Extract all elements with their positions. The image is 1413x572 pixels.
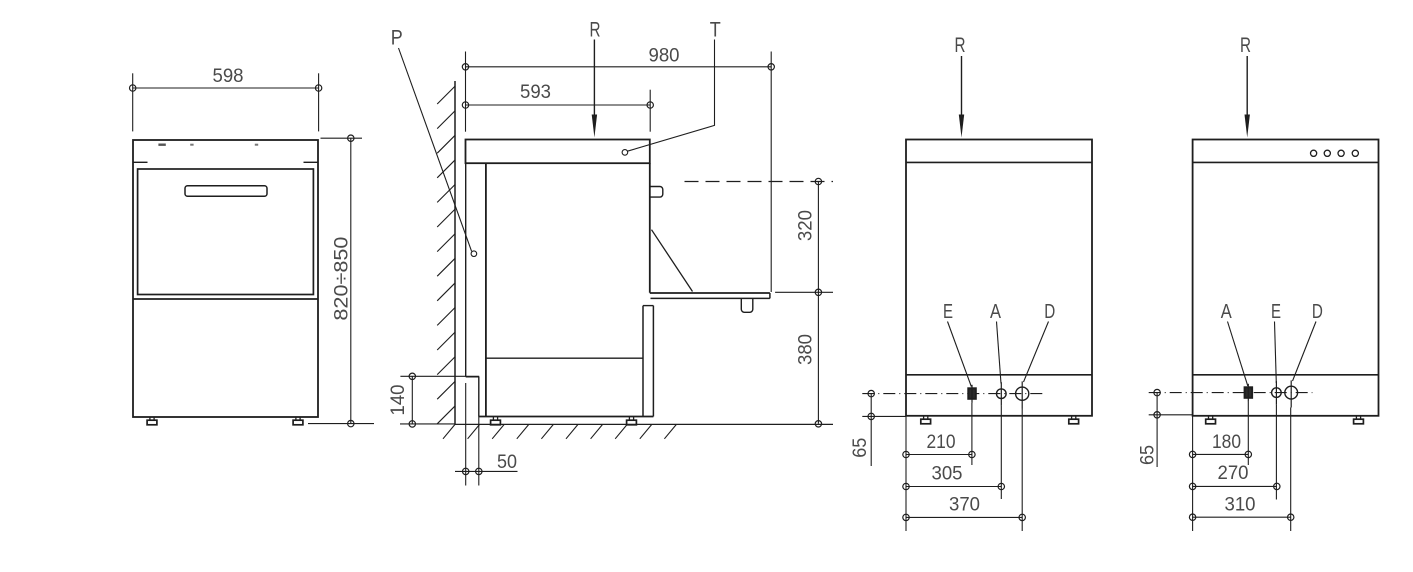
- dimension 65 A: text: [850, 438, 871, 458]
- connector D extension: [1021, 409, 1023, 532]
- rear view B: left foot: [1206, 416, 1216, 424]
- rear view A: right foot: [1069, 416, 1079, 424]
- dimension 305: text: [932, 464, 963, 485]
- connector E rear B: circle: [1272, 381, 1282, 405]
- svg-text:370: 370: [949, 495, 980, 516]
- side view: machine bottom line: [479, 416, 654, 418]
- dimension 980: text: [649, 46, 680, 67]
- side view: wall hatching: [437, 86, 455, 424]
- svg-text:820÷850: 820÷850: [332, 237, 353, 321]
- front view: machine outline: [133, 140, 318, 417]
- dimension 380: text: [796, 334, 817, 365]
- arrow R side view: [592, 40, 597, 138]
- side view: open door underside: [651, 293, 770, 298]
- svg-text:270: 270: [1218, 463, 1249, 484]
- dimension 370: text: [949, 495, 980, 516]
- dimension 180: text: [1212, 432, 1241, 453]
- connector D extension rear B: [1290, 408, 1292, 532]
- svg-text:598: 598: [213, 66, 244, 87]
- side view: ground hatching: [443, 425, 676, 439]
- dimension 65 B: text: [1138, 445, 1159, 465]
- dimension 980: end circles: [462, 64, 774, 70]
- dimension 270: line and circles: [1189, 483, 1280, 489]
- side view: door latch: [741, 299, 753, 313]
- side view: dashed clearance line: [685, 181, 834, 183]
- front view: left foot: [147, 417, 157, 425]
- dimension 820-850: extension lines: [308, 138, 374, 423]
- dimension 50: text: [497, 452, 517, 473]
- dimension 140: end circles: [409, 373, 415, 427]
- rear view B: right foot: [1354, 416, 1364, 424]
- label E: [943, 301, 953, 323]
- dimension 320: end circles: [815, 178, 821, 295]
- dimension 210: text: [927, 432, 956, 453]
- side view: rear channel bottom tick: [466, 376, 480, 378]
- front view: door bottom edge line: [133, 298, 318, 300]
- label R rear view A: [955, 34, 966, 57]
- rear view A: base band line: [906, 374, 1092, 376]
- dimension 310: line and circles: [1189, 514, 1294, 520]
- arrow R rear view B: [1245, 56, 1250, 138]
- side view: worktop slab: [466, 140, 650, 164]
- svg-text:65: 65: [1138, 445, 1159, 465]
- svg-text:310: 310: [1225, 495, 1256, 516]
- dimension 270: text: [1218, 463, 1249, 484]
- connector A: circle: [997, 382, 1007, 406]
- svg-text:R: R: [1240, 34, 1251, 57]
- front view: control panel marks: [158, 143, 258, 145]
- svg-text:A: A: [990, 301, 1002, 323]
- connector A rear B: square: [1245, 384, 1253, 402]
- dimension 50: end circles: [463, 468, 482, 474]
- side view: wall line: [454, 81, 456, 425]
- label R side view: [590, 19, 601, 42]
- side view: right foot: [627, 417, 637, 425]
- svg-text:50: 50: [497, 452, 517, 473]
- side view: door swing diagonal: [652, 230, 693, 292]
- rear view B: top band line: [1193, 161, 1379, 163]
- rear view B: connector centerline: [1149, 392, 1313, 394]
- dimension 980: left extension: [465, 52, 467, 132]
- connector A extension: [1000, 406, 1002, 499]
- label T: [710, 19, 721, 42]
- svg-text:P: P: [391, 27, 403, 50]
- label A: [990, 301, 1002, 323]
- dimension 380: extension tick: [775, 291, 833, 293]
- side view: rear channel outer line: [465, 163, 467, 377]
- side view: tub bottom line: [486, 357, 643, 359]
- dimension 980: right extension: [770, 52, 772, 293]
- side view: left foot: [491, 417, 501, 425]
- dimension 140: text: [388, 385, 409, 416]
- label E leader: [948, 322, 972, 387]
- rear view A: left extension line: [905, 416, 907, 531]
- label E rear B: [1271, 301, 1281, 323]
- rear view A: machine outline: [906, 140, 1092, 416]
- dimension 380: dimension line: [817, 292, 819, 424]
- dimension 820-850: text: [332, 237, 353, 321]
- dimension 310: text: [1225, 495, 1256, 516]
- dimension 370: line and circles: [903, 514, 1026, 520]
- rear view A: left foot: [921, 416, 931, 424]
- dimension 598: dimension line: [133, 87, 319, 89]
- svg-text:E: E: [1271, 301, 1281, 323]
- svg-text:R: R: [955, 34, 966, 57]
- dimension 593: right extension: [649, 90, 651, 132]
- label R rear view B: [1240, 34, 1251, 57]
- label D rear B: [1312, 301, 1323, 323]
- dimension 140: dimension line: [411, 376, 413, 424]
- svg-text:R: R: [590, 19, 601, 42]
- svg-text:180: 180: [1212, 432, 1241, 453]
- svg-text:A: A: [1221, 301, 1233, 323]
- label T leader line: [622, 40, 714, 156]
- rear view B: panel buttons: [1311, 150, 1359, 156]
- side view: rear lower line: [478, 377, 480, 417]
- label A leader rear B: [1228, 322, 1248, 387]
- dimension 820-850: dimension line: [350, 138, 352, 423]
- connector E extension: [971, 403, 973, 465]
- svg-text:D: D: [1044, 301, 1055, 323]
- svg-text:D: D: [1312, 301, 1323, 323]
- front view: door panel: [138, 169, 314, 295]
- svg-text:593: 593: [520, 82, 551, 103]
- dimension 598: text: [213, 66, 244, 87]
- side view: lower front panel: [643, 306, 653, 417]
- svg-text:305: 305: [932, 464, 963, 485]
- dimension 50: extension lines: [466, 383, 479, 486]
- svg-text:E: E: [943, 301, 953, 323]
- dimension 65 A: lines: [862, 394, 906, 466]
- svg-text:320: 320: [796, 210, 817, 241]
- connector A extension rear B: [1247, 402, 1249, 465]
- side view: back panel line: [485, 163, 487, 416]
- label P leader line: [399, 48, 477, 257]
- label A leader: [997, 322, 1002, 384]
- rear view A: top band line: [906, 161, 1092, 163]
- svg-text:65: 65: [850, 438, 871, 458]
- dimension 50: dimension line: [455, 470, 518, 472]
- svg-text:380: 380: [796, 334, 817, 365]
- front view: right foot: [293, 417, 303, 425]
- label E leader rear B: [1275, 322, 1277, 384]
- side view: machine front edge: [649, 163, 651, 293]
- arrow R rear view A: [959, 56, 964, 138]
- dimension 593: text: [520, 82, 551, 103]
- label D leader: [1024, 322, 1049, 383]
- label D leader rear B: [1293, 322, 1317, 382]
- label P: [391, 27, 403, 50]
- dimension 65 B: reference circles: [1154, 389, 1160, 418]
- front view: control panel bottom edge segments: [133, 161, 318, 163]
- dimension 820-850: end circles: [348, 135, 354, 427]
- dimension 980: dimension line: [466, 66, 772, 68]
- svg-text:T: T: [710, 19, 721, 42]
- connector E extension rear B: [1275, 405, 1277, 500]
- dimension 593: end circles: [462, 102, 653, 108]
- svg-text:140: 140: [388, 385, 409, 416]
- front view: door handle: [185, 186, 267, 196]
- rear view B: left extension line: [1192, 416, 1194, 531]
- dimension 380: end circle: [815, 421, 821, 427]
- side view: top tab T detail: [651, 187, 663, 198]
- connector D: circle: [1016, 381, 1029, 408]
- dimension 598: end circles: [130, 85, 322, 91]
- dimension 598: extension lines: [133, 73, 319, 131]
- dimension 65 B: lines: [1149, 393, 1193, 467]
- side view: ground line: [455, 423, 833, 425]
- label A rear B: [1221, 301, 1233, 323]
- dimension 320: dimension line: [817, 182, 819, 293]
- rear view B: base band line: [1193, 374, 1379, 376]
- dimension 320: text: [796, 210, 817, 241]
- dimension 140: extension lines: [400, 376, 479, 424]
- side view: open door top surface: [650, 292, 770, 294]
- rear view B: machine outline: [1193, 140, 1379, 416]
- connector E: square: [968, 385, 976, 403]
- svg-text:980: 980: [649, 46, 680, 67]
- svg-text:210: 210: [927, 432, 956, 453]
- dimension 210: line and circles: [903, 451, 975, 457]
- label D: [1044, 301, 1055, 323]
- dimension 305: line and circles: [903, 483, 1005, 489]
- rear view A: connector centerline: [862, 393, 1045, 395]
- dimension 65 A: reference circles: [868, 390, 874, 419]
- dimension 593: dimension line: [466, 104, 651, 106]
- connector D rear B: circle: [1285, 380, 1298, 407]
- dimension 180: line and circles: [1189, 451, 1251, 457]
